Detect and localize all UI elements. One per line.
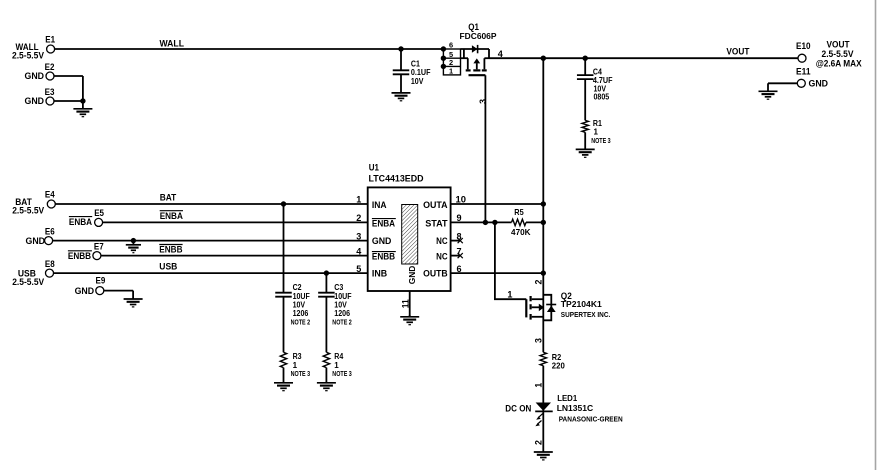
svg-text:NOTE 2: NOTE 2 <box>332 320 352 327</box>
wire E2 to ground <box>54 75 83 77</box>
svg-text:NC: NC <box>436 252 448 262</box>
svg-text:C1: C1 <box>411 59 420 68</box>
svg-text:U1: U1 <box>369 163 379 173</box>
terminal E5 (ENBA) <box>95 218 103 226</box>
svg-text:VOUT: VOUT <box>827 40 850 50</box>
wire USB net to U1 INB <box>54 272 368 274</box>
svg-text:INA: INA <box>372 200 387 210</box>
wire VOUT to C4 <box>584 58 586 75</box>
capacitor C2 10UF 10V 1206 <box>275 292 292 294</box>
wire ENBA net to U1 <box>103 221 368 223</box>
svg-text:INB: INB <box>372 269 388 279</box>
wire OUTA to VOUT column <box>451 203 544 205</box>
wire Q1 top rail with body diode <box>461 48 490 50</box>
svg-text:E1: E1 <box>45 35 55 45</box>
ground symbol for E9 <box>132 291 134 299</box>
wire R5 to VOUT column <box>526 221 543 223</box>
terminal E9 (GND) <box>96 287 104 295</box>
svg-text:LED1: LED1 <box>557 393 577 403</box>
LED LED1 LN1351C <box>536 403 551 411</box>
svg-text:WALL: WALL <box>160 38 185 48</box>
resistor R2 220 <box>540 352 546 365</box>
svg-text:3: 3 <box>478 99 488 104</box>
svg-text:GND: GND <box>372 236 392 246</box>
svg-text:1: 1 <box>449 66 453 75</box>
svg-text:ENBB: ENBB <box>159 245 183 255</box>
svg-text:2.5-5.5V: 2.5-5.5V <box>12 205 44 215</box>
wire STAT from U1 <box>451 221 512 223</box>
svg-text:1: 1 <box>534 383 544 388</box>
svg-text:STAT: STAT <box>425 219 448 229</box>
LED emission arrows <box>539 414 543 418</box>
terminal E7 (ENBB) <box>93 252 101 260</box>
transistor Q1 MOSFET channel <box>466 69 471 71</box>
svg-text:C4: C4 <box>593 67 602 76</box>
svg-text:USB: USB <box>159 262 177 272</box>
node Q1 pin 5 <box>441 56 446 61</box>
page edge border right <box>875 0 877 470</box>
wire Q1 gate to STAT <box>484 75 486 222</box>
wire WALL to C1 <box>400 49 402 70</box>
svg-text:OUTA: OUTA <box>423 200 448 210</box>
svg-text:GND: GND <box>407 266 417 285</box>
svg-text:E11: E11 <box>796 67 811 77</box>
svg-text:C2: C2 <box>293 283 302 292</box>
ground symbol for E2/E3 <box>82 101 84 109</box>
wire C3 to R4 <box>325 297 327 353</box>
wire U1 pin 11 to ground <box>409 291 411 317</box>
svg-text:E8: E8 <box>45 259 55 269</box>
wire BAT net to U1 INA <box>56 203 368 205</box>
svg-text:C3: C3 <box>334 283 343 292</box>
svg-text:DC ON: DC ON <box>505 404 531 414</box>
svg-text:FDC606P: FDC606P <box>460 31 497 41</box>
svg-text:E6: E6 <box>45 226 55 236</box>
svg-text:0805: 0805 <box>594 93 610 102</box>
capacitor C4 4.7UF 10V 0805 <box>577 74 594 76</box>
ground symbol for E11 <box>767 83 769 91</box>
svg-text:1: 1 <box>356 195 361 205</box>
svg-text:2: 2 <box>534 280 544 285</box>
svg-text:NOTE 2: NOTE 2 <box>291 320 311 327</box>
ground symbol below R4 <box>325 368 327 383</box>
svg-text:E9: E9 <box>96 276 106 286</box>
node OUTA junction <box>541 201 546 206</box>
wire ENBB net to U1 <box>101 255 368 257</box>
capacitor C3 10UF 10V 1206 <box>318 292 335 294</box>
svg-text:E7: E7 <box>94 241 104 251</box>
terminal E4 (BAT input) <box>47 200 55 208</box>
node C1 tap on WALL net <box>398 46 403 51</box>
wire E6 GND to U1 pin3 <box>53 240 368 242</box>
ground symbol for U1 pin 11 <box>409 315 411 317</box>
svg-text:GND: GND <box>75 286 95 296</box>
svg-text:6: 6 <box>449 41 453 50</box>
node STAT to Q1 gate <box>483 220 488 225</box>
transistor Q1 gate bar <box>469 74 486 76</box>
svg-text:TP2104K1: TP2104K1 <box>561 299 602 309</box>
wire STAT to Q2 gate <box>495 222 526 299</box>
svg-text:GND: GND <box>25 71 45 81</box>
svg-text:E2: E2 <box>45 62 55 72</box>
ground symbol below LED1 <box>542 412 544 453</box>
svg-text:NOTE 3: NOTE 3 <box>591 138 611 145</box>
svg-text:PANASONIC-GREEN: PANASONIC-GREEN <box>559 414 623 423</box>
wire R2 to LED1 <box>542 366 544 412</box>
node E2/E3 ground junction <box>80 98 85 103</box>
svg-text:OUTB: OUTB <box>423 269 448 279</box>
svg-text:3: 3 <box>534 338 544 343</box>
node OUTB junction <box>541 270 546 275</box>
ground symbol on E6 wire <box>132 241 134 245</box>
svg-text:1: 1 <box>334 361 339 370</box>
wire C2 to R3 <box>283 297 285 353</box>
op-amp U1 body <box>368 187 451 291</box>
svg-text:@2.6A MAX: @2.6A MAX <box>816 58 862 68</box>
terminal E2 (GND) <box>46 72 54 80</box>
resistor R4 1 NOTE3 <box>323 352 329 367</box>
body diode of Q1 <box>472 45 478 53</box>
svg-text:3: 3 <box>356 231 361 241</box>
svg-text:SUPERTEX INC.: SUPERTEX INC. <box>561 310 611 319</box>
resistor R3 1 NOTE3 <box>280 352 286 367</box>
wire VOUT column down to R2 <box>542 58 544 352</box>
wire OUTB to VOUT column <box>451 272 544 274</box>
svg-text:2.5-5.5V: 2.5-5.5V <box>12 277 44 287</box>
wire WALL net E1 to Q1 <box>55 48 444 50</box>
svg-text:ENBA: ENBA <box>160 211 184 221</box>
transistor Q1 pin box (pins 6,5,2,1) <box>443 49 460 75</box>
node VOUT to Q2 column <box>541 56 546 61</box>
svg-text:1: 1 <box>507 289 512 299</box>
svg-text:ENBA: ENBA <box>372 219 396 229</box>
svg-text:NC: NC <box>436 236 448 246</box>
svg-text:10V: 10V <box>411 77 424 86</box>
wire E9 to ground <box>104 290 133 292</box>
terminal E1 (WALL input) <box>47 45 55 53</box>
svg-text:VOUT: VOUT <box>726 46 749 56</box>
svg-text:2: 2 <box>356 213 361 223</box>
node Q1 pin 2 <box>441 64 446 69</box>
svg-text:GND: GND <box>25 96 45 106</box>
terminal E8 (USB input) <box>46 269 54 277</box>
svg-text:ENBB: ENBB <box>68 251 92 261</box>
node VOUT to C4 <box>583 56 588 61</box>
ground symbol below R1 <box>584 132 586 149</box>
ground symbol below C1 <box>400 74 402 93</box>
resistor R5 470K <box>512 219 527 225</box>
svg-text:GND: GND <box>809 79 829 89</box>
node C2 tap on BAT net <box>281 201 286 206</box>
node Q1 pin 6 <box>441 46 446 51</box>
svg-text:R5: R5 <box>514 207 524 217</box>
svg-text:LTC4413EDD: LTC4413EDD <box>369 173 424 183</box>
capacitor C1 0.1UF 10V <box>393 69 410 71</box>
node R5 junction <box>541 220 546 225</box>
no-connect pin 8 stub <box>451 240 461 242</box>
svg-text:1206: 1206 <box>334 309 350 318</box>
svg-text:1: 1 <box>293 361 298 370</box>
body diode branch of Q2 <box>543 295 551 321</box>
terminal E3 (GND) <box>46 97 54 105</box>
svg-text:2.5-5.5V: 2.5-5.5V <box>12 51 44 61</box>
svg-text:470K: 470K <box>511 227 531 237</box>
svg-text:NOTE 3: NOTE 3 <box>332 371 352 378</box>
wire BAT tap down to C2 <box>283 204 285 293</box>
wire E11 to ground <box>768 82 797 84</box>
svg-text:GND: GND <box>26 236 46 246</box>
svg-text:E3: E3 <box>45 87 55 97</box>
svg-text:5: 5 <box>356 264 361 274</box>
exposed pad of U1 (hatched) <box>402 205 418 265</box>
wire VOUT rail Q1 pin4 to E10 <box>489 57 798 59</box>
svg-text:E5: E5 <box>94 208 104 218</box>
transistor Q2 channel <box>529 296 531 301</box>
wire USB tap down to C3 <box>325 273 327 293</box>
terminal E11 (GND) <box>797 79 805 87</box>
no-connect pin 7 stub <box>451 255 461 257</box>
svg-text:ENBA: ENBA <box>69 217 93 227</box>
terminal E10 (VOUT) <box>798 54 806 62</box>
body diode of Q2 <box>546 304 556 306</box>
svg-text:ENBB: ENBB <box>372 252 396 262</box>
wire C4 to R1 <box>584 79 586 120</box>
svg-text:1: 1 <box>594 128 599 137</box>
svg-text:220: 220 <box>552 360 565 370</box>
wire Q1 drain lead <box>484 57 489 59</box>
svg-text:LN1351C: LN1351C <box>557 403 594 413</box>
resistor R1 1 NOTE3 <box>582 120 588 132</box>
svg-text:2: 2 <box>534 440 544 445</box>
transistor Q2 gate bar <box>525 299 527 317</box>
node STAT to Q2 gate <box>492 220 497 225</box>
svg-text:1206: 1206 <box>293 309 309 318</box>
svg-text:E4: E4 <box>45 189 56 199</box>
ground symbol below R3 <box>283 368 285 383</box>
svg-text:BAT: BAT <box>160 193 177 203</box>
wire E3 to ground <box>54 100 83 102</box>
wire Q1 source lead <box>461 57 469 59</box>
node C3 tap on USB net <box>324 270 329 275</box>
svg-text:E10: E10 <box>796 41 811 51</box>
node ground tap on E6 wire <box>131 238 136 243</box>
svg-text:NOTE 3: NOTE 3 <box>291 371 311 378</box>
terminal E6 (GND) <box>45 237 53 245</box>
